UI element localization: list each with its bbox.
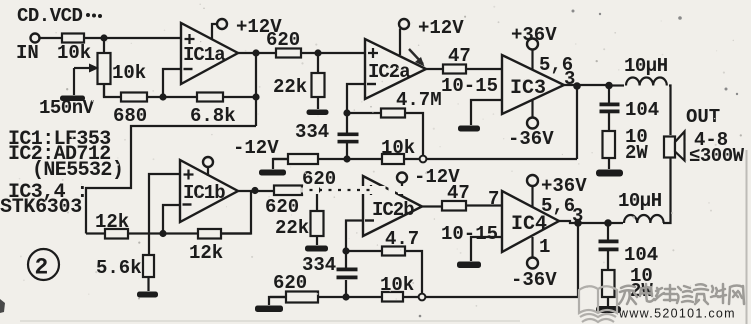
svg-text:+12V: +12V bbox=[418, 17, 464, 39]
capacitor 334 (bottom feedback) bbox=[337, 251, 358, 297]
+12V terminal IC1a bbox=[212, 16, 282, 39]
svg-text:10k: 10k bbox=[112, 62, 146, 84]
pot wiper arrow bbox=[74, 64, 99, 73]
svg-text:10µH: 10µH bbox=[618, 190, 662, 212]
watermark white dashes over wire bbox=[303, 186, 432, 194]
svg-text:≤300W: ≤300W bbox=[689, 145, 745, 167]
svg-text:620: 620 bbox=[265, 196, 299, 218]
wire output column down bbox=[255, 53, 257, 126]
ground for 620 top rail bbox=[259, 159, 288, 176]
+36V terminal IC4 bbox=[527, 175, 587, 207]
node 4.7/rail bottom bbox=[419, 294, 426, 301]
ground for 620 bottom rail bbox=[255, 297, 286, 312]
svg-text:1: 1 bbox=[539, 236, 550, 258]
resistor 10k (bottom rail) bbox=[380, 274, 414, 302]
wire IC1b output bbox=[238, 190, 274, 192]
resistor 620 (top series) bbox=[266, 29, 301, 58]
svg-text:334: 334 bbox=[295, 121, 329, 143]
feedback wire IC4 out down to rail bbox=[577, 223, 579, 297]
ground (150mV input level) bbox=[39, 96, 95, 120]
scan edge line right bbox=[746, 150, 748, 324]
node zobel tap bottom bbox=[604, 219, 612, 227]
resistor 22k to ground (top) bbox=[273, 53, 325, 109]
svg-text:47: 47 bbox=[448, 45, 471, 67]
-12V terminal IC1b bbox=[203, 137, 279, 176]
svg-text:5.6k: 5.6k bbox=[96, 257, 142, 279]
wire 620 to IC2a + bbox=[301, 52, 365, 54]
power amp IC3 bbox=[502, 55, 564, 114]
resistor 10k (top rail) bbox=[381, 137, 415, 164]
svg-text:10µH: 10µH bbox=[624, 55, 668, 77]
svg-text:10k: 10k bbox=[57, 42, 91, 64]
node 22k tap bottom bbox=[313, 186, 320, 193]
label CD.VCD source text bbox=[17, 5, 102, 27]
node cap/rail bottom bbox=[342, 293, 349, 300]
feedback rail bottom channel bbox=[270, 296, 578, 298]
wire IC2a out to 47 bbox=[426, 68, 443, 70]
node IC1b inverting net bbox=[159, 230, 166, 237]
pen mark arrow at IC2a output bbox=[409, 49, 423, 64]
svg-text:IC2a: IC2a bbox=[368, 61, 410, 83]
wire speaker to bottom channel bbox=[663, 158, 671, 223]
wire IC1a output bbox=[238, 52, 276, 54]
dash remnant marks bbox=[277, 188, 303, 193]
wire wiper to ground bbox=[73, 68, 75, 95]
svg-text:OUT: OUT bbox=[686, 106, 720, 128]
wire R10k to IC1a + input bbox=[84, 37, 181, 39]
svg-text:22k: 22k bbox=[275, 217, 309, 239]
svg-text:4.7M: 4.7M bbox=[396, 89, 442, 111]
scan blob left edge bbox=[0, 299, 5, 313]
svg-text:-36V: -36V bbox=[508, 128, 554, 150]
scan noise specks bbox=[419, 10, 739, 318]
wire IC4 output bbox=[559, 221, 608, 223]
svg-text:2: 2 bbox=[35, 255, 49, 281]
IC3 lower input to ground bbox=[458, 100, 502, 132]
svg-text:+36V: +36V bbox=[541, 175, 587, 197]
wire 6.8k to output node bbox=[223, 96, 256, 98]
node zobel tap top bbox=[605, 82, 613, 90]
capacitor 334 (top feedback) bbox=[338, 113, 359, 159]
resistor 6.8k feedback bbox=[190, 93, 236, 128]
svg-text:12k: 12k bbox=[189, 242, 223, 264]
wire IC1b + input / 5.6k column bbox=[149, 174, 180, 255]
svg-text:IC1b: IC1b bbox=[183, 182, 225, 204]
wire node up to IC1a - input bbox=[163, 69, 181, 97]
svg-text:+36V: +36V bbox=[511, 24, 557, 46]
svg-text:STK6303: STK6303 bbox=[0, 196, 82, 219]
wire IC2b out to 47 bbox=[422, 205, 442, 207]
figure number 2 circled bbox=[28, 249, 59, 281]
watermark chinese text bbox=[619, 284, 744, 304]
input terminal IN bbox=[16, 34, 40, 65]
resistor 5.6k to ground bbox=[96, 255, 154, 291]
svg-text:-12V: -12V bbox=[233, 137, 279, 159]
svg-text:IC1a: IC1a bbox=[183, 44, 225, 66]
node at pot top bbox=[100, 34, 107, 41]
svg-text:47: 47 bbox=[447, 182, 470, 204]
+12V terminal IC2a bbox=[399, 17, 464, 55]
node IC4 output bbox=[574, 219, 582, 227]
node IC1a output bbox=[252, 49, 259, 56]
op-amp IC1a bbox=[181, 23, 238, 84]
resistor 680 bbox=[113, 93, 147, 128]
svg-text:10k: 10k bbox=[381, 137, 415, 159]
wire 680 to junction to 6.8k bbox=[147, 96, 197, 98]
wire inductor to speaker column bbox=[669, 86, 671, 136]
wire rail up to IC1b output bbox=[221, 191, 251, 234]
svg-text:4.7: 4.7 bbox=[385, 228, 419, 250]
svg-text:12k: 12k bbox=[95, 211, 129, 233]
svg-text:IN: IN bbox=[16, 42, 39, 64]
op-amp IC2b bbox=[363, 176, 422, 236]
svg-text:-36V: -36V bbox=[511, 269, 557, 291]
svg-text:22k: 22k bbox=[273, 76, 307, 98]
resistor 47 / 10-15 (top) bbox=[441, 45, 498, 97]
+36V terminal IC3 bbox=[511, 24, 557, 70]
power amp IC4 bbox=[502, 191, 559, 252]
node cap/rail bbox=[343, 155, 350, 162]
svg-text:2W: 2W bbox=[625, 142, 648, 164]
op-amp IC2a bbox=[365, 39, 426, 99]
svg-text:104: 104 bbox=[624, 244, 658, 266]
svg-text:(NE5532): (NE5532) bbox=[32, 159, 123, 182]
svg-text:104: 104 bbox=[625, 99, 659, 121]
resistor 10k (series input) bbox=[57, 34, 91, 65]
speaker bbox=[664, 132, 685, 161]
node feedback/output column bbox=[252, 93, 259, 100]
svg-text:10-15: 10-15 bbox=[441, 75, 498, 97]
wire IC3 output bbox=[564, 84, 609, 86]
resistor 47 / 10-15 (bottom) bbox=[441, 182, 498, 245]
watermark book icon bbox=[579, 286, 617, 322]
scan smudge bottom bbox=[20, 320, 520, 322]
-36V terminal IC4 bbox=[511, 237, 557, 291]
svg-text:IC2b: IC2b bbox=[372, 199, 414, 221]
resistor 22k to ground (bottom) bbox=[275, 190, 324, 245]
ground below 22k top bbox=[295, 110, 329, 144]
resistor 12k (input, left) bbox=[95, 211, 129, 239]
wire IN to R 10k bbox=[40, 37, 62, 39]
svg-text:www.520101.com: www.520101.com bbox=[618, 307, 736, 321]
node 4.7M/rail bbox=[420, 156, 427, 163]
wire bottom rail bbox=[86, 232, 251, 234]
ground below 22k bottom bbox=[302, 246, 336, 277]
resistor 10 2W (bottom zobel) bbox=[602, 251, 653, 306]
wire 47 to IC4 bbox=[466, 204, 502, 206]
svg-text:150nV: 150nV bbox=[39, 97, 95, 119]
ground bottom zobel bbox=[596, 306, 621, 313]
IC4 lower input to ground bbox=[457, 237, 502, 268]
svg-text:IC3: IC3 bbox=[510, 77, 546, 100]
resistor 620 (bottom series) bbox=[265, 186, 302, 219]
svg-text:620: 620 bbox=[266, 29, 300, 51]
ground top zobel bbox=[596, 170, 623, 177]
op-amp IC1b bbox=[180, 160, 238, 222]
ground below 5.6k bbox=[137, 292, 158, 298]
svg-text:10-15: 10-15 bbox=[441, 223, 498, 245]
IC list text block bbox=[0, 128, 123, 219]
-12V terminal IC2b bbox=[397, 166, 460, 196]
wire node up to IC1b - input bbox=[163, 205, 180, 234]
resistor 620 to ground (top rail) bbox=[288, 154, 336, 190]
resistor 12k (feedback, right) bbox=[189, 229, 223, 264]
node IC2b feedback bbox=[342, 247, 349, 254]
wire pot bottom to 680 bbox=[104, 84, 121, 97]
svg-text:620: 620 bbox=[273, 272, 307, 294]
feedback rail top channel bbox=[273, 158, 577, 160]
svg-text:7: 7 bbox=[488, 188, 499, 210]
wire IC2a - input down bbox=[347, 84, 365, 113]
potentiometer 10k vertical bbox=[98, 38, 147, 97]
inductor 10uH (bottom) bbox=[608, 190, 664, 223]
resistor 620 to ground (bottom rail) bbox=[273, 272, 318, 303]
wire 47 to IC3 bbox=[466, 68, 502, 70]
svg-text:5,6: 5,6 bbox=[541, 195, 575, 217]
feedback wire IC3 out down to rail bbox=[576, 86, 578, 159]
resistor 10 2W (top zobel) bbox=[603, 113, 649, 169]
-36V terminal IC3 bbox=[508, 100, 554, 150]
node IC3 output bbox=[573, 82, 581, 90]
node IC2a feedback bbox=[343, 109, 350, 116]
resistor 4.7M feedback bbox=[347, 89, 442, 159]
svg-text:CD.VCD: CD.VCD bbox=[17, 5, 83, 27]
node 22k tap bbox=[314, 49, 321, 56]
inductor 10uH (top) bbox=[609, 55, 668, 86]
wire 620 to IC2b + bbox=[302, 189, 363, 191]
capacitor 104 (top zobel) bbox=[600, 86, 660, 122]
capacitor 104 (bottom zobel) bbox=[599, 223, 659, 266]
svg-text:10k: 10k bbox=[380, 274, 414, 296]
wire IC1a out column to IC1b input rail bbox=[86, 126, 256, 234]
svg-text:6.8k: 6.8k bbox=[190, 105, 236, 127]
svg-text:680: 680 bbox=[113, 105, 147, 127]
node IC1a inverting net bbox=[159, 93, 166, 100]
resistor 4.7 feedback (bottom) bbox=[346, 228, 422, 297]
node IC1b output bbox=[251, 187, 258, 194]
wire IC2b - input down bbox=[346, 221, 363, 252]
